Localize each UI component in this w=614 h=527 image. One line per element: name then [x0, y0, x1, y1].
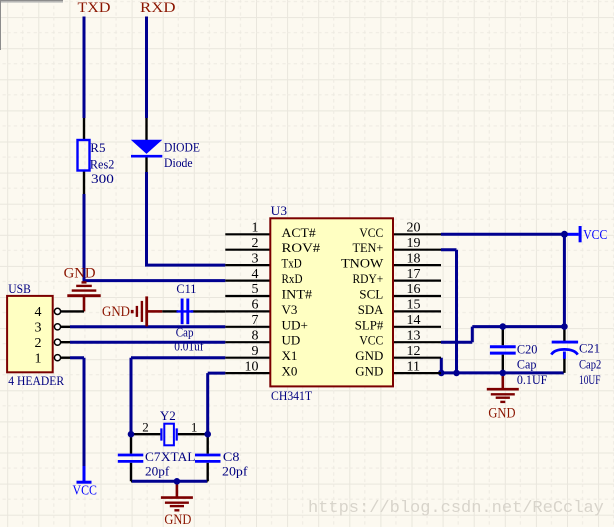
svg-text:10UF: 10UF: [579, 372, 601, 387]
svg-text:14: 14: [407, 313, 421, 328]
svg-text:18: 18: [407, 251, 421, 266]
connector USB pin numbers: [35, 305, 42, 366]
wire USB pin1 to VCC: [61, 358, 85, 466]
svg-text:ACT#: ACT#: [282, 225, 317, 240]
svg-text:0.01uf: 0.01uf: [174, 338, 204, 353]
crystal leads: [131, 433, 208, 435]
diode D1 pin top: [145, 118, 147, 141]
wire C11 right to U3 pin6: [191, 310, 225, 312]
svg-text:300: 300: [91, 171, 114, 186]
svg-text:GND: GND: [102, 304, 130, 320]
svg-text:TXD: TXD: [78, 0, 111, 16]
svg-text:VCC: VCC: [359, 225, 383, 240]
svg-text:2: 2: [252, 236, 259, 251]
svg-text:4 HEADER: 4 HEADER: [8, 373, 64, 388]
ground symbol below C20: [487, 373, 519, 402]
svg-text:UD+: UD+: [282, 317, 309, 332]
wire bottom rail right: [441, 371, 564, 374]
watermark: [308, 499, 604, 518]
power VCC top-right: [566, 226, 580, 242]
chip U3 pins left: [225, 234, 270, 373]
ground symbol near USB pin4: [67, 282, 100, 311]
svg-text:20pf: 20pf: [145, 464, 170, 479]
crystal pin numbers: [142, 420, 197, 435]
U3 pin names right: [341, 225, 384, 379]
diode D1: [131, 140, 163, 157]
capacitor C11: [177, 299, 194, 325]
svg-text:Diode: Diode: [164, 155, 193, 170]
svg-text:C7: C7: [145, 449, 161, 464]
svg-text:TxD: TxD: [282, 256, 302, 271]
svg-text:RXD: RXD: [140, 0, 176, 16]
wire TXD vertical: [83, 17, 86, 119]
svg-text:V3: V3: [282, 302, 298, 317]
U3 pin numbers left: [245, 221, 259, 375]
svg-text:4: 4: [252, 267, 259, 282]
svg-text:ROV#: ROV#: [282, 240, 321, 255]
label U3: [271, 203, 312, 403]
svg-text:GND: GND: [164, 512, 191, 527]
svg-text:UD: UD: [282, 333, 301, 348]
svg-text:Y2: Y2: [160, 408, 176, 423]
svg-text:3: 3: [35, 320, 42, 335]
svg-text:15: 15: [407, 298, 421, 313]
svg-text:TEN+: TEN+: [353, 240, 384, 255]
label USB: [8, 281, 64, 388]
power VCC bottom-left: [77, 466, 92, 482]
svg-text:SLP#: SLP#: [355, 317, 384, 332]
svg-text:2: 2: [142, 420, 149, 435]
capacitor C7: [118, 455, 144, 461]
resistor R5 pin bottom: [83, 170, 85, 194]
wire bottom rail crystal: [132, 480, 207, 483]
svg-text:2: 2: [35, 336, 42, 351]
svg-text:DIODE: DIODE: [164, 139, 200, 154]
connector USB pin circles: [54, 308, 60, 361]
svg-text:R5: R5: [90, 140, 105, 155]
svg-text:9: 9: [252, 344, 259, 359]
svg-text:11: 11: [407, 359, 420, 374]
U3 pin names left: [282, 225, 321, 379]
capacitor C21 leads: [563, 328, 565, 373]
resistor R5: [78, 140, 90, 171]
svg-text:GND: GND: [355, 348, 383, 363]
svg-text:12: 12: [407, 344, 421, 359]
net label GND upper-left: [64, 266, 96, 282]
ground symbol rotated near C11: [131, 296, 163, 326]
svg-text:13: 13: [407, 328, 421, 343]
svg-text:USB: USB: [8, 281, 31, 296]
wire USB pin2 to U3 pin8: [61, 341, 226, 343]
wire U3 pin9 to crystal left: [131, 358, 225, 435]
wire U3 pin12 down: [440, 358, 443, 373]
svg-text:SDA: SDA: [358, 302, 384, 317]
svg-text:U3: U3: [271, 203, 287, 218]
svg-text:GND: GND: [488, 406, 515, 422]
wire diode to U3 pin3: [147, 172, 226, 265]
capacitor C21: [551, 342, 578, 359]
label C8: [222, 449, 248, 478]
svg-text:16: 16: [407, 282, 421, 297]
net label GND C11: [102, 304, 130, 320]
svg-text:C21: C21: [579, 341, 600, 356]
power label VCC bottom: [73, 483, 97, 498]
svg-text:Cap2: Cap2: [579, 357, 601, 372]
net label GND bottom: [164, 512, 191, 527]
wire ground to C11 left: [162, 310, 178, 312]
svg-text:1: 1: [252, 221, 259, 236]
leads to C7 C8: [131, 434, 208, 454]
svg-text:5: 5: [252, 282, 259, 297]
net label TXD: [78, 0, 111, 16]
svg-text:TNOW: TNOW: [341, 256, 384, 271]
wire U3 pin19 down: [441, 250, 457, 373]
label R5: [90, 140, 114, 186]
label DIODE: [164, 139, 200, 169]
svg-text:Cap: Cap: [517, 357, 537, 372]
wire R5 to GND corner to U3 pin4: [84, 194, 225, 281]
capacitor C20 leads: [502, 327, 504, 373]
wire U3 pin10 to crystal right: [208, 373, 226, 434]
svg-text:19: 19: [407, 236, 421, 251]
label Y2: [160, 408, 176, 423]
crystal Y2: [161, 424, 176, 446]
U3 pin numbers right: [407, 221, 421, 375]
svg-text:C11: C11: [176, 281, 196, 296]
svg-text:7: 7: [252, 313, 259, 328]
net label RXD: [140, 0, 176, 16]
svg-text:C8: C8: [223, 449, 240, 464]
net label GND right: [488, 406, 515, 422]
svg-text:1: 1: [191, 420, 198, 435]
svg-text:20: 20: [407, 221, 421, 236]
svg-text:https://blog.csdn.net/ReCclay: https://blog.csdn.net/ReCclay: [308, 499, 604, 518]
svg-text:CH341T: CH341T: [271, 388, 312, 403]
svg-text:Res2: Res2: [90, 157, 114, 172]
svg-text:GND: GND: [355, 364, 383, 379]
svg-text:VCC: VCC: [73, 483, 97, 498]
svg-text:3: 3: [252, 251, 259, 266]
svg-text:VCC: VCC: [583, 227, 607, 242]
svg-text:XTAL: XTAL: [161, 449, 196, 464]
svg-text:RDY+: RDY+: [353, 271, 384, 286]
wire USB pin4 to ground: [61, 310, 85, 312]
diode D1 pin bottom: [145, 156, 147, 172]
capacitor C20: [490, 347, 516, 353]
svg-text:VCC: VCC: [359, 333, 383, 348]
svg-text:8: 8: [252, 328, 259, 343]
label C21: [579, 341, 601, 388]
chip U3 body: [270, 218, 393, 386]
label C7 XTAL: [145, 449, 196, 478]
svg-text:X1: X1: [282, 348, 298, 363]
wire RXD vertical: [145, 17, 148, 119]
resistor R5 pin top: [83, 118, 85, 140]
leads C7 C8 bottom: [131, 463, 208, 482]
svg-text:C20: C20: [517, 342, 538, 357]
svg-text:Cap: Cap: [176, 324, 194, 339]
wire USB pin3 to U3 pin7: [61, 326, 226, 328]
capacitor C8: [195, 455, 221, 461]
wire U3 pin20 to VCC: [441, 234, 564, 326]
connector USB body: [7, 296, 53, 372]
svg-text:GND: GND: [64, 266, 96, 282]
screen artifact top-left: [0, 0, 63, 50]
svg-text:6: 6: [252, 298, 259, 313]
svg-text:RxD: RxD: [282, 271, 303, 286]
svg-text:INT#: INT#: [282, 287, 313, 302]
svg-text:20pf: 20pf: [222, 464, 248, 479]
svg-text:17: 17: [407, 267, 421, 282]
svg-text:X0: X0: [282, 364, 298, 379]
svg-text:0.1UF: 0.1UF: [517, 372, 548, 387]
svg-text:1: 1: [35, 351, 42, 366]
chip U3 pins right: [393, 234, 441, 373]
ground symbol bottom: [161, 481, 193, 510]
label C11: [174, 281, 204, 353]
wire U3 pin13 to top cap rail: [441, 327, 564, 343]
svg-text:SCL: SCL: [359, 287, 383, 302]
power label VCC top-right: [583, 227, 607, 242]
svg-text:4: 4: [35, 305, 42, 320]
label C20: [517, 342, 548, 388]
svg-text:10: 10: [245, 359, 259, 374]
